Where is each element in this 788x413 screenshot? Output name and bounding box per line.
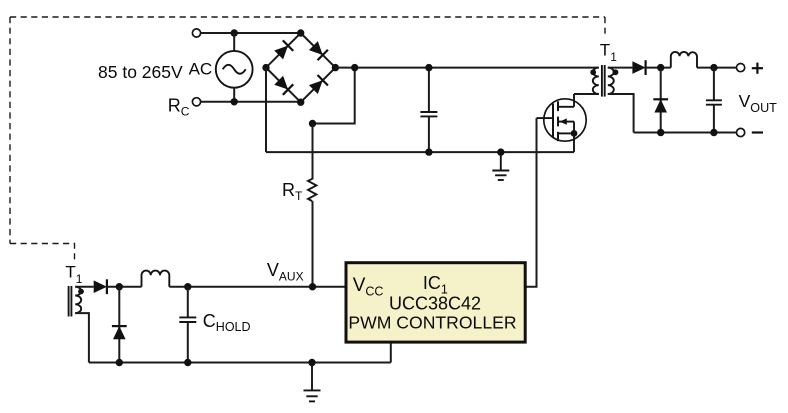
bridge rectifier frame xyxy=(266,33,335,102)
capacitor bulk xyxy=(420,112,437,116)
junction xyxy=(116,359,123,366)
ground (primary) xyxy=(492,152,509,180)
bridge diode (left to top) xyxy=(273,40,293,60)
wire xyxy=(390,342,392,363)
svg-text:RC: RC xyxy=(168,96,190,119)
wire xyxy=(118,287,120,363)
inductor output xyxy=(671,52,697,68)
wire xyxy=(201,101,301,103)
svg-text:CHOLD: CHOLD xyxy=(203,311,251,334)
phase dot secondary xyxy=(613,69,619,75)
junction xyxy=(425,148,432,155)
svg-text:85 to 265V: 85 to 265V xyxy=(98,62,183,82)
wire xyxy=(713,105,715,133)
svg-text:T1: T1 xyxy=(65,262,82,286)
bridge diode (bottom to right) xyxy=(308,75,328,95)
wire secondary return xyxy=(608,94,634,133)
bridge diode (left to bottom) xyxy=(273,75,293,95)
wire output return xyxy=(634,132,737,134)
rectifier diode output xyxy=(632,60,645,75)
wire ground rail xyxy=(89,362,391,364)
junction xyxy=(231,29,238,36)
wire DC return drop xyxy=(265,68,267,153)
dashed isolation boundary jog to aux transformer xyxy=(10,244,75,262)
wire xyxy=(107,286,142,288)
junction xyxy=(710,129,717,136)
label minus xyxy=(752,131,763,133)
junction xyxy=(184,359,191,366)
dashed isolation boundary left xyxy=(9,17,11,244)
wire xyxy=(428,116,430,152)
junction xyxy=(425,64,432,71)
wire xyxy=(697,67,737,69)
wire xyxy=(233,33,235,51)
label plus xyxy=(752,63,763,74)
wire RT tap xyxy=(313,68,355,124)
transformer T1 core xyxy=(602,65,605,97)
junction xyxy=(309,120,316,127)
junction xyxy=(184,283,191,290)
AC input terminal top xyxy=(192,29,200,37)
phase dot primary xyxy=(590,69,596,75)
op-amp IC1 UCC38C42 PWM controller box xyxy=(346,263,525,342)
AC source xyxy=(216,51,253,88)
dashed link to transformer T1 xyxy=(604,17,606,37)
capacitor output xyxy=(706,100,722,104)
junction xyxy=(308,359,315,366)
bridge diode (top to right) xyxy=(308,40,328,60)
wire xyxy=(428,68,430,112)
wire xyxy=(312,124,314,180)
ground (IC) xyxy=(304,363,321,402)
wire xyxy=(608,67,633,69)
wire xyxy=(713,68,715,101)
wire VAUX feed xyxy=(169,286,346,288)
svg-text:VOUT: VOUT xyxy=(739,91,778,115)
junction xyxy=(116,283,123,290)
wire drain to primary xyxy=(574,93,599,95)
rectifier diode aux xyxy=(94,279,107,294)
node VAUX xyxy=(309,283,316,290)
freewheel diode output xyxy=(653,99,668,112)
svg-text:T1: T1 xyxy=(600,40,617,64)
transistor Q1 MOSFET xyxy=(537,94,587,152)
junction xyxy=(657,64,664,71)
wire xyxy=(75,286,94,288)
node bridge top xyxy=(297,29,304,36)
wire xyxy=(187,322,189,363)
wire xyxy=(201,32,301,34)
svg-text:PWM CONTROLLER: PWM CONTROLLER xyxy=(348,312,516,332)
transformer T1 primary winding xyxy=(593,68,599,94)
wire xyxy=(646,67,671,69)
svg-text:RT: RT xyxy=(282,180,303,203)
transformer T1 aux core xyxy=(69,286,72,317)
freewheel diode aux xyxy=(112,326,127,339)
wire xyxy=(312,201,314,287)
svg-text:UCC38C42: UCC38C42 xyxy=(389,293,481,313)
node bridge left xyxy=(262,64,269,71)
junction xyxy=(351,64,358,71)
node bridge bottom xyxy=(297,99,304,106)
junction xyxy=(657,129,664,136)
wire DC return rail xyxy=(266,151,574,153)
wire aux winding return xyxy=(75,313,89,362)
node bridge right xyxy=(332,64,339,71)
AC input terminal bottom xyxy=(192,98,200,106)
wire gate drive xyxy=(526,118,537,287)
svg-text:VAUX: VAUX xyxy=(267,260,304,284)
wire DC bus xyxy=(335,67,598,69)
wire xyxy=(660,68,662,133)
output terminal minus xyxy=(737,128,745,136)
dashed isolation boundary top xyxy=(10,16,605,18)
capacitor CHOLD xyxy=(179,317,196,322)
svg-text:AC: AC xyxy=(189,59,213,78)
inductor aux xyxy=(142,271,170,287)
transformer T1 aux winding xyxy=(75,287,81,313)
wire xyxy=(187,287,189,318)
junction xyxy=(710,64,717,71)
transformer T1 secondary winding xyxy=(608,68,614,94)
junction xyxy=(231,98,238,105)
phase dot aux xyxy=(78,289,84,295)
resistor RT xyxy=(308,179,316,201)
wire xyxy=(233,88,235,102)
junction xyxy=(497,148,504,155)
output terminal plus xyxy=(737,64,745,72)
